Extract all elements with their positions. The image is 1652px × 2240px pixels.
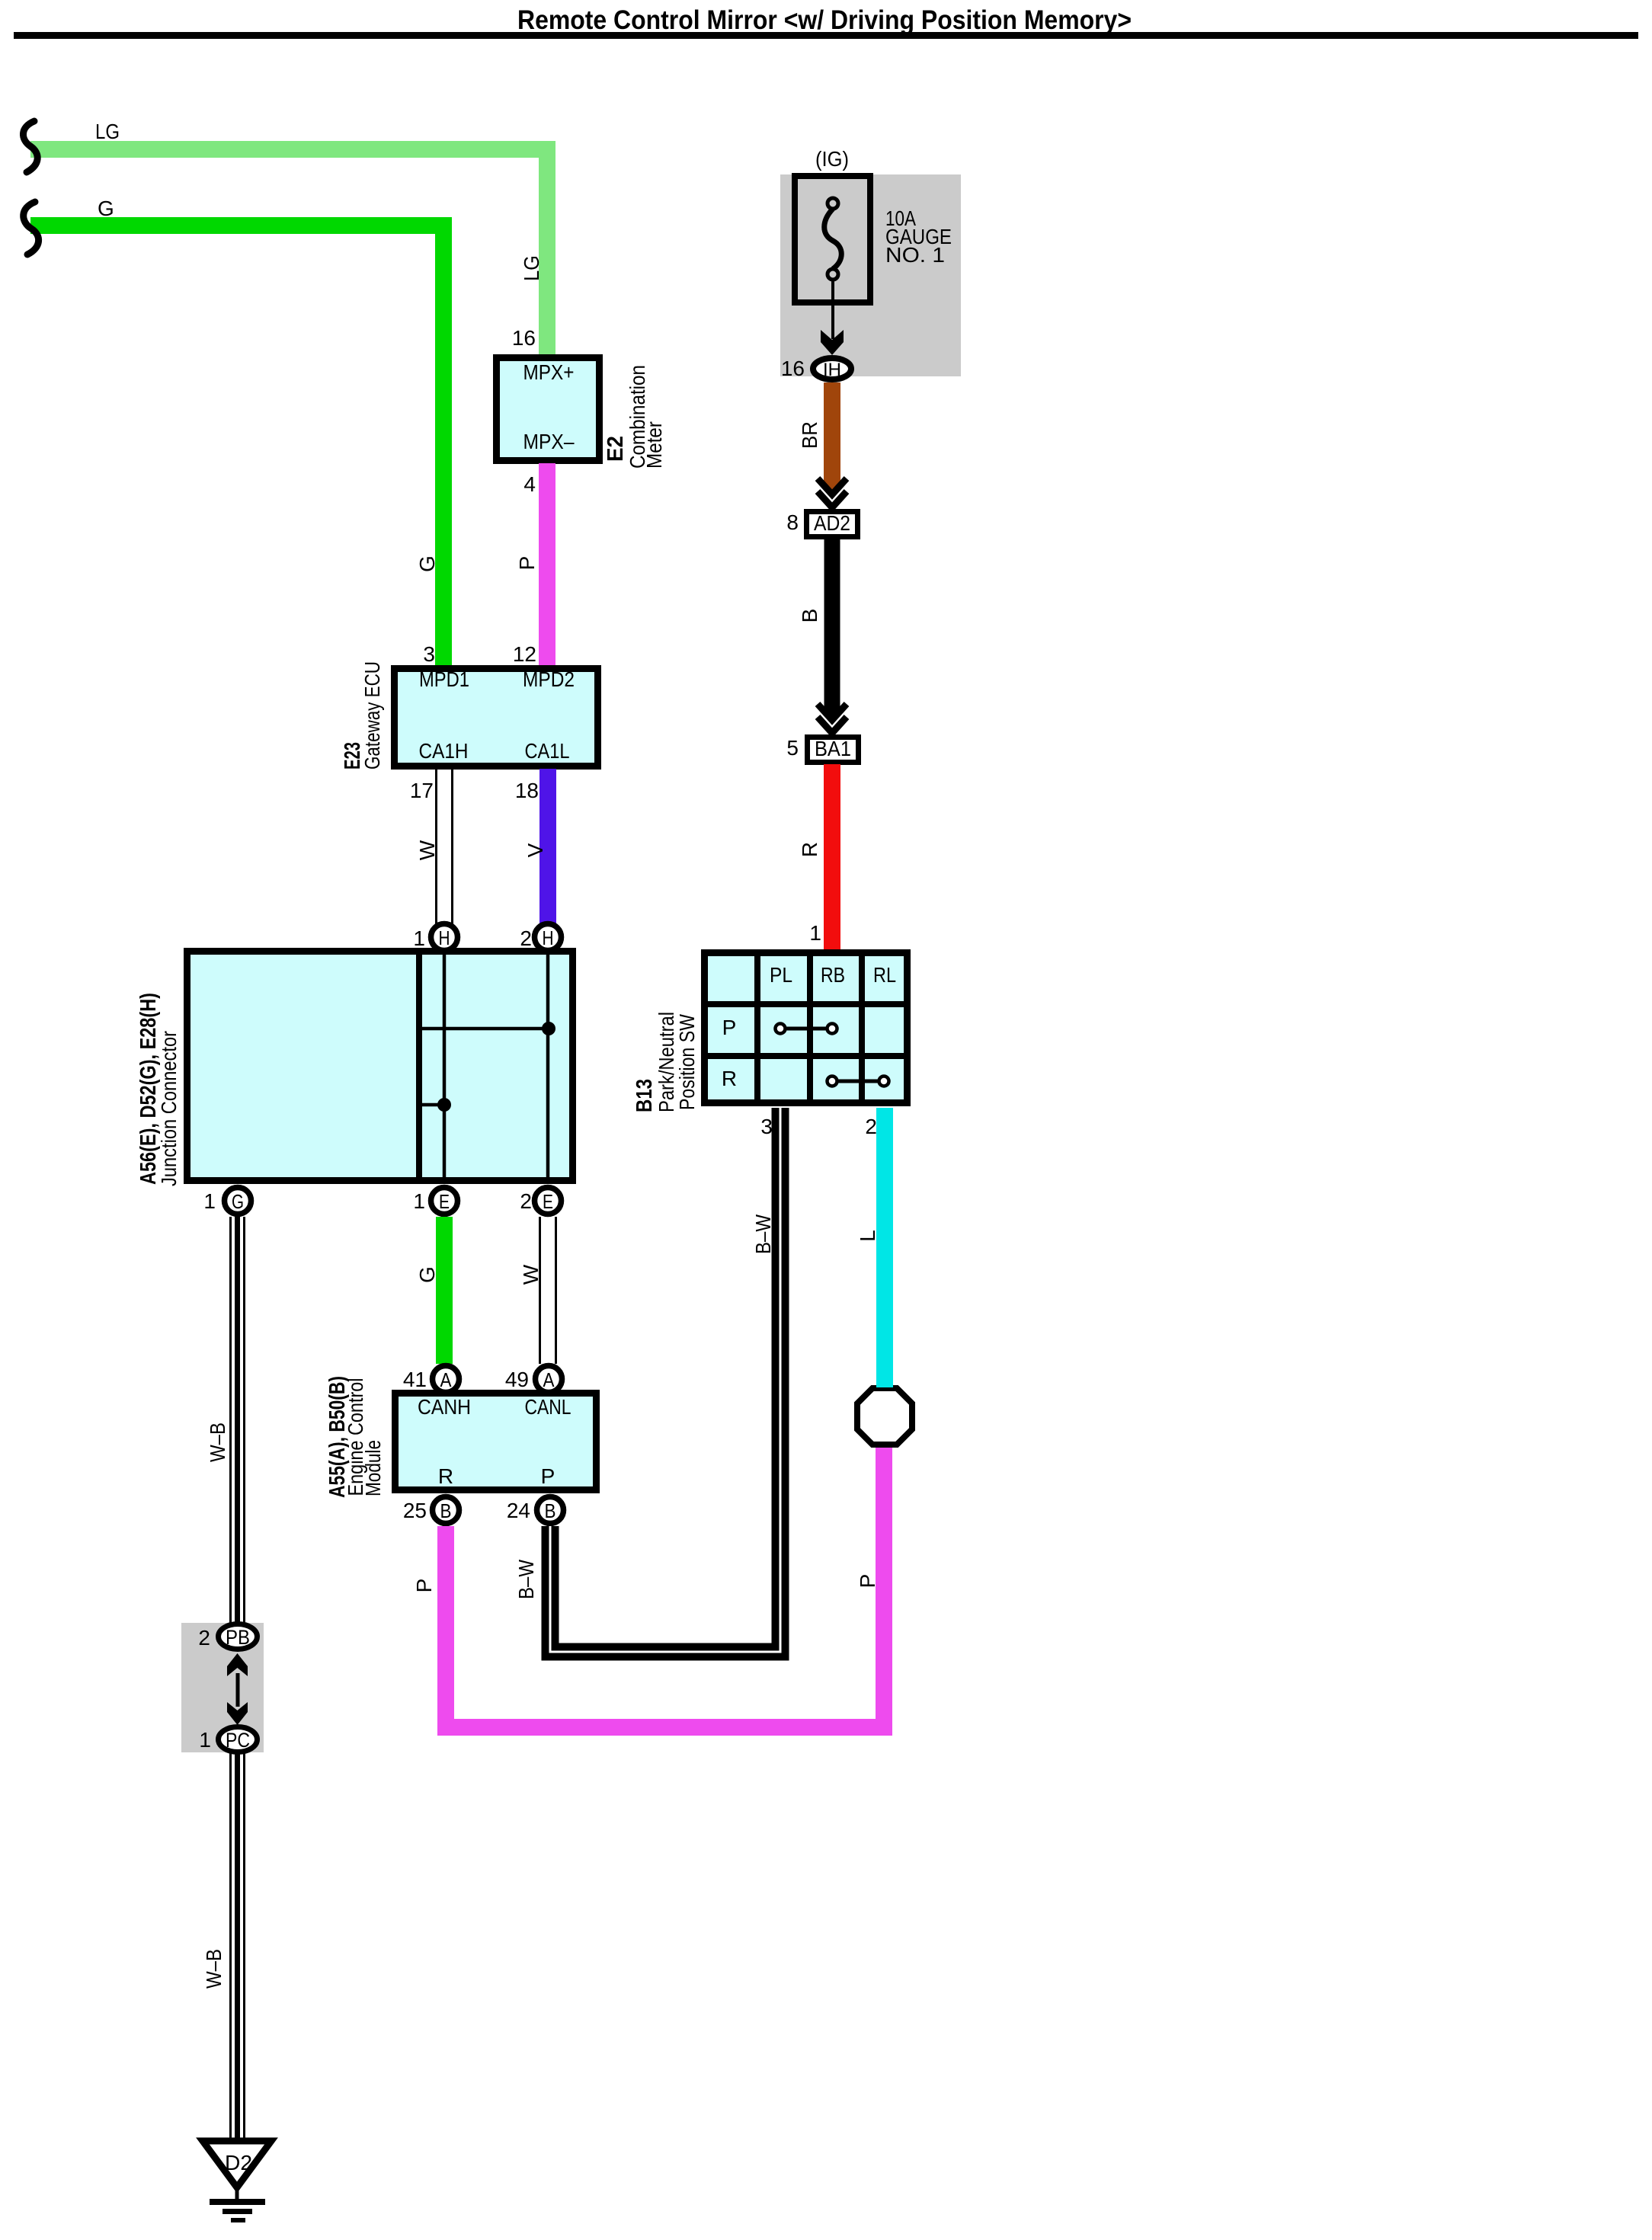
svg-text:Junction Connector: Junction Connector	[157, 1031, 181, 1186]
svg-text:3: 3	[423, 642, 435, 666]
svg-text:1: 1	[809, 921, 821, 945]
svg-text:4: 4	[523, 472, 536, 496]
svg-text:W: W	[415, 840, 439, 860]
chevron arrows into BA1	[818, 704, 847, 733]
wire W (white) 2E to ECM pin 49	[540, 1217, 556, 1364]
svg-text:AD2: AD2	[814, 511, 850, 535]
svg-text:IH: IH	[823, 360, 841, 380]
name Combination Meter	[626, 365, 666, 469]
octagon page connector	[857, 1388, 912, 1445]
svg-text:B: B	[440, 1499, 452, 1522]
svg-text:P: P	[412, 1579, 436, 1593]
svg-text:24: 24	[507, 1499, 530, 1522]
pin 1E circle	[413, 1188, 457, 1214]
chevron arrows into AD2	[818, 478, 847, 507]
label (IG)	[815, 147, 849, 171]
pin 24 B circle	[507, 1497, 564, 1524]
pin 1G circle	[203, 1188, 251, 1214]
label G (rotated)	[415, 1266, 439, 1283]
svg-text:NO. 1: NO. 1	[885, 243, 945, 267]
svg-text:1: 1	[413, 926, 425, 950]
fuse block gray panel (IG)	[780, 174, 961, 376]
svg-text:B–W: B–W	[514, 1560, 538, 1599]
wire P (pink) ECM pin 25 down, right, up to octagon connector	[446, 1447, 884, 1727]
designator E2	[603, 436, 628, 462]
svg-text:H: H	[543, 926, 554, 949]
svg-text:1: 1	[203, 1189, 216, 1213]
svg-text:PC: PC	[226, 1729, 250, 1752]
svg-text:A: A	[440, 1368, 453, 1391]
wire BR (brown) IH to AD2	[824, 382, 840, 491]
label V (rotated)	[523, 843, 547, 857]
pin 25 B circle	[403, 1497, 459, 1524]
svg-text:P: P	[541, 1464, 555, 1488]
link line between arrows	[236, 1673, 240, 1707]
svg-text:LG: LG	[95, 120, 120, 143]
svg-text:B13: B13	[632, 1079, 657, 1112]
label P (rotated)	[515, 556, 539, 571]
svg-text:12: 12	[513, 642, 536, 666]
svg-text:R: R	[438, 1464, 453, 1488]
svg-text:W–B: W–B	[206, 1422, 229, 1462]
svg-text:G: G	[98, 197, 114, 220]
svg-text:P: P	[856, 1574, 879, 1589]
name Junction Connector	[157, 1031, 181, 1186]
label B-W (rotated, upper)	[751, 1214, 775, 1254]
wire P (pink) E2 pin 4 to E23 pin 12	[539, 463, 555, 668]
ECM A55(A), B50(B) Engine Control Module	[395, 1394, 597, 1490]
svg-text:A: A	[543, 1368, 555, 1391]
switch contact P row	[776, 1024, 837, 1034]
ground D2	[203, 2141, 271, 2222]
connector AD2	[786, 510, 857, 537]
junction connector A56(E), D52(G), E28(H) box	[187, 951, 573, 1181]
wire B (black) AD2 to BA1	[824, 539, 840, 716]
label BR (rotated)	[798, 421, 821, 449]
svg-text:RL: RL	[873, 963, 896, 987]
pin number 12 of E23	[513, 642, 536, 666]
label B (rotated)	[798, 609, 821, 623]
wire LG (light green) from harness squiggle to E2 pin 16	[30, 149, 547, 358]
switch contact R row	[828, 1077, 889, 1086]
value label 10A GAUGE NO. 1	[885, 206, 952, 267]
pin number 2 of B13	[865, 1115, 877, 1138]
wire B-W (black-white) ECM pin 24 down, right, up to B13 pin 3	[550, 1108, 780, 1652]
svg-text:CA1L: CA1L	[525, 739, 570, 763]
label R (rotated)	[798, 842, 821, 857]
pin 2H circle	[520, 924, 561, 951]
designator A56(E), D52(G), E28(H)	[136, 993, 161, 1185]
label LG (horizontal)	[95, 120, 120, 143]
wire L (cyan) B13 pin 2 to octagon	[876, 1108, 893, 1387]
svg-text:25: 25	[403, 1499, 427, 1522]
shielded connector PB/PC gray panel	[181, 1623, 264, 1752]
svg-text:Meter: Meter	[642, 421, 666, 469]
fuse 10A GAUGE NO. 1	[795, 176, 870, 302]
pin 2 PB oval	[198, 1624, 257, 1650]
name Park/Neutral Position SW	[655, 1012, 699, 1112]
svg-text:P: P	[515, 556, 539, 571]
label B-W (rotated, lower)	[514, 1560, 538, 1599]
label P (rotated, right run)	[856, 1574, 879, 1589]
name Engine Control Module	[344, 1378, 385, 1497]
label G (rotated, vertical run)	[415, 555, 439, 572]
pin number 3 of B13	[760, 1115, 773, 1138]
svg-text:8: 8	[786, 510, 799, 534]
label L (rotated)	[856, 1230, 879, 1242]
svg-text:RB: RB	[821, 963, 845, 987]
connector BA1	[786, 736, 858, 763]
svg-text:1: 1	[413, 1189, 425, 1213]
svg-text:MPD1: MPD1	[419, 667, 469, 691]
svg-text:CANL: CANL	[525, 1395, 571, 1419]
svg-text:18: 18	[515, 779, 539, 802]
pin number 16 of E2	[512, 326, 536, 350]
pin number 4 of E2	[523, 472, 536, 496]
svg-text:16: 16	[512, 326, 536, 350]
wire G (green) 1E to ECM pin 41	[436, 1217, 453, 1364]
svg-text:E2: E2	[603, 436, 628, 462]
label P (rotated, left run)	[412, 1579, 436, 1593]
svg-text:L: L	[856, 1230, 879, 1242]
designator A55(A), B50(B)	[325, 1376, 350, 1498]
name Gateway ECU	[360, 661, 384, 770]
svg-text:2: 2	[198, 1626, 210, 1650]
svg-text:Remote Control Mirror <w/ Driv: Remote Control Mirror <w/ Driving Positi…	[517, 5, 1132, 35]
designator E23	[341, 742, 365, 770]
svg-text:B: B	[545, 1499, 556, 1522]
svg-text:BR: BR	[798, 421, 821, 449]
svg-text:PB: PB	[226, 1626, 250, 1649]
wire W-B (white-black) PC to ground D2	[231, 1753, 245, 2142]
svg-text:41: 41	[403, 1368, 427, 1391]
switch B13 Park/Neutral Position SW	[703, 951, 909, 1105]
svg-text:3: 3	[760, 1115, 773, 1138]
title: Remote Control Mirror	[14, 5, 1638, 39]
arrow down toward PC	[227, 1702, 248, 1725]
wire G (green) from harness squiggle to E23 pin 3	[30, 226, 443, 668]
svg-text:R: R	[798, 842, 821, 857]
svg-text:1: 1	[199, 1728, 211, 1752]
svg-text:2: 2	[520, 926, 532, 950]
svg-text:Position SW: Position SW	[675, 1014, 699, 1110]
pin 1 PC oval	[199, 1727, 257, 1752]
svg-text:Gateway ECU: Gateway ECU	[360, 661, 384, 770]
designator B13	[632, 1079, 657, 1112]
svg-text:MPX–: MPX–	[523, 430, 575, 453]
wire V (violet) E23 pin 18 to junction connector 2H	[539, 769, 556, 926]
label G (horizontal)	[98, 197, 114, 220]
svg-text:G: G	[415, 555, 439, 572]
svg-text:H: H	[439, 926, 450, 949]
svg-text:W: W	[519, 1264, 543, 1285]
pin number 17 of E23	[410, 779, 434, 802]
pin 49 A circle	[505, 1366, 562, 1393]
connector E2 Combination Meter	[497, 358, 600, 461]
svg-text:Module: Module	[361, 1440, 385, 1496]
svg-text:G: G	[232, 1190, 244, 1213]
pin number 18 of E23	[515, 779, 539, 802]
label W (rotated)	[415, 840, 439, 860]
junction dot on 1H-1E line	[437, 1098, 451, 1112]
svg-text:R: R	[722, 1067, 737, 1090]
svg-text:17: 17	[410, 779, 434, 802]
pin 1H circle	[413, 924, 457, 951]
svg-text:(IG): (IG)	[815, 147, 849, 171]
svg-text:V: V	[523, 843, 547, 857]
svg-text:B–W: B–W	[751, 1214, 775, 1254]
arrow up toward PB	[227, 1653, 248, 1676]
label W (rotated)	[519, 1264, 543, 1285]
wire W (white) E23 pin 17 to junction connector 1H	[437, 769, 453, 926]
junction dot on 2H-2E line	[542, 1022, 555, 1035]
ECU E23 Gateway ECU	[395, 667, 598, 766]
svg-text:2: 2	[520, 1189, 532, 1213]
svg-text:E: E	[439, 1190, 450, 1213]
svg-text:G: G	[415, 1266, 439, 1283]
svg-text:LG: LG	[520, 255, 543, 281]
svg-text:W–B: W–B	[202, 1949, 226, 1989]
harness break squiggle for LG wire	[23, 121, 37, 172]
svg-text:D2: D2	[225, 2151, 252, 2174]
label W-B (rotated, upper)	[206, 1422, 229, 1462]
svg-text:2: 2	[865, 1115, 877, 1138]
svg-text:CANH: CANH	[418, 1395, 471, 1419]
svg-text:PL: PL	[770, 963, 792, 987]
svg-text:49: 49	[505, 1368, 529, 1391]
svg-text:B: B	[798, 609, 821, 623]
svg-text:CA1H: CA1H	[419, 739, 469, 763]
svg-text:16: 16	[781, 357, 805, 380]
wire from fuse to IH with arrow	[821, 280, 844, 355]
label LG (rotated, vertical run)	[520, 255, 543, 281]
pin 16 IH oval	[781, 357, 851, 380]
pin 2E circle	[520, 1188, 561, 1214]
svg-text:P: P	[722, 1016, 737, 1039]
svg-text:MPX+: MPX+	[523, 360, 575, 384]
pin number 1 of B13	[809, 921, 821, 945]
wire R (red) BA1 to B13 pin 1	[824, 764, 840, 951]
pin number 3 of E23	[423, 642, 435, 666]
wire W-B (white-black) 1G to PB	[231, 1217, 245, 1624]
svg-text:BA1: BA1	[815, 737, 851, 760]
pin 41 A circle	[403, 1366, 459, 1393]
svg-text:MPD2: MPD2	[523, 667, 575, 691]
svg-text:5: 5	[786, 736, 799, 760]
harness break squiggle for G wire	[24, 202, 39, 254]
label W-B (rotated, lower)	[202, 1949, 226, 1989]
svg-text:E: E	[543, 1190, 553, 1213]
